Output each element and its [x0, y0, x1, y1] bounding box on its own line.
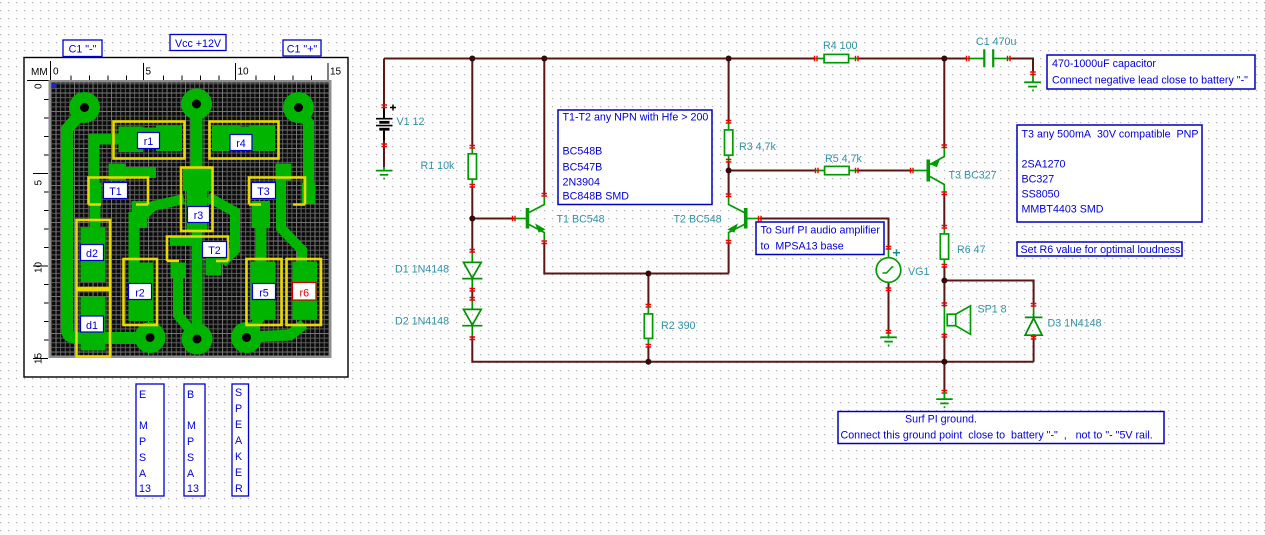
wire T2 emitter up	[728, 242, 730, 274]
capacitor C1	[966, 49, 1009, 67]
outline r2	[124, 259, 158, 325]
component pad T3 square	[276, 164, 292, 181]
label T1	[104, 183, 128, 199]
outline d1	[77, 290, 111, 357]
tick R3 top	[726, 121, 732, 124]
component pad d2	[81, 228, 106, 283]
ruler left ticks	[33, 100, 49, 359]
trace T1 square to right	[117, 167, 156, 178]
tick R3 bottom	[726, 160, 732, 163]
pad P6	[231, 322, 262, 353]
wire D2 to bottom rail	[472, 336, 648, 362]
trace r1 left pad to T1	[94, 139, 124, 188]
wire R3 node to R5	[729, 170, 816, 172]
tick R5 right	[856, 168, 859, 174]
svg-text:T1 BC548: T1 BC548	[557, 214, 605, 226]
node speaker bottom	[941, 359, 947, 365]
outline d2	[77, 220, 111, 288]
trace r3 bottom down through T2 to P5	[192, 226, 203, 334]
svg-text:10: 10	[34, 261, 45, 273]
svg-text:Surf PI ground.: Surf PI ground.	[905, 414, 977, 426]
component pad T1 bottom	[132, 201, 148, 228]
wire R1 branch top	[471, 59, 473, 148]
component pad d1	[81, 297, 106, 351]
node T1 base	[469, 216, 475, 222]
label r3	[188, 207, 210, 223]
svg-text:T1: T1	[109, 186, 122, 198]
component pad T2 left	[171, 263, 186, 278]
red pin ticks	[382, 56, 1037, 393]
diode D3	[1025, 305, 1043, 335]
label r6 (red)	[293, 283, 317, 301]
svg-text:S: S	[187, 452, 194, 464]
label r5	[253, 284, 276, 300]
note box Surf PI ground	[838, 412, 1164, 444]
component pad r4 right	[249, 126, 275, 152]
pad P4	[135, 322, 166, 353]
wire base node to T1	[472, 218, 514, 220]
outline r6	[287, 259, 322, 325]
tick ground bottom	[942, 391, 948, 394]
tick R5 left	[816, 168, 819, 174]
tick SP1 bottom	[942, 335, 948, 338]
tick V1 top	[382, 105, 388, 108]
svg-text:P: P	[235, 403, 242, 415]
label r4	[230, 135, 252, 151]
component pad T3 right	[302, 183, 315, 205]
label r2	[129, 284, 152, 300]
wire R3 bottom to node	[728, 161, 730, 171]
svg-text:T2: T2	[208, 245, 221, 257]
svg-text:A: A	[235, 435, 243, 447]
tick D1 bottom	[470, 289, 476, 292]
note box T3 PNP	[1017, 125, 1202, 222]
svg-text:R6 47: R6 47	[957, 244, 986, 256]
svg-text:MM: MM	[31, 67, 48, 78]
trace P3 tail down right side	[299, 110, 309, 200]
note SPEAKER	[232, 384, 249, 496]
svg-text:to MPSA13 base: to MPSA13 base	[761, 241, 844, 253]
pcb board black area with grid	[51, 83, 329, 356]
ruler corner lines	[27, 61, 51, 81]
tick R6 bottom	[942, 265, 948, 268]
tick R4 right	[856, 56, 859, 62]
trace T1 bottom pad diagonal to r3	[141, 199, 184, 218]
label T3	[252, 183, 276, 199]
tick R2 bottom	[646, 345, 652, 348]
wire top rail after C1 to corner	[1009, 59, 1033, 72]
wire battery to ground	[383, 131, 385, 167]
svg-text:A: A	[139, 468, 147, 480]
note C1 minus	[63, 40, 102, 57]
svg-text:R3 4,7k: R3 4,7k	[739, 141, 776, 153]
pad hole P5	[193, 335, 202, 344]
pad P3	[283, 92, 314, 123]
pad P2	[181, 89, 212, 120]
speaker SP1	[944, 306, 970, 335]
component pad r1 right	[156, 126, 182, 152]
svg-text:C1 470u: C1 470u	[976, 36, 1016, 48]
node R3 bottom	[726, 168, 732, 174]
svg-text:d2: d2	[86, 248, 98, 260]
svg-text:Connect negative lead close to: Connect negative lead close to battery "…	[1052, 75, 1248, 87]
component pad T2 square	[206, 256, 222, 276]
outline r4	[210, 122, 279, 159]
wire top rail right segment	[859, 58, 967, 60]
wire bottom rail mid	[648, 361, 944, 363]
note C1 plus	[283, 40, 321, 56]
svg-text:SS8050: SS8050	[1022, 189, 1060, 201]
svg-text:R1 10k: R1 10k	[421, 160, 456, 172]
wire T2 collector to R3 node	[728, 171, 730, 197]
resistor R6	[940, 234, 948, 259]
label d1	[81, 316, 104, 332]
outline r5	[247, 259, 282, 325]
trace P6 to r6 bottom	[251, 324, 304, 337]
wire R5 to T3 base	[857, 170, 912, 172]
tick R1 top	[470, 146, 476, 149]
svg-text:V1 12: V1 12	[397, 116, 425, 128]
svg-text:2N3904: 2N3904	[563, 177, 600, 189]
node R1 top	[469, 56, 475, 62]
svg-text:P: P	[187, 436, 194, 448]
outline T2	[167, 237, 228, 262]
svg-text:To Surf PI audio amplifier: To Surf PI audio amplifier	[761, 225, 881, 237]
tick SP1 top	[942, 303, 948, 306]
tick R1 bottom	[470, 185, 476, 188]
trace T1 left pad to d2	[90, 198, 101, 233]
ground (VG1)	[880, 333, 897, 345]
trace T2 left pad down to P5	[178, 272, 190, 330]
wire R3 branch top	[728, 59, 730, 123]
label T2	[203, 242, 227, 258]
outline r3	[181, 168, 213, 232]
wire node to D3 branch	[944, 281, 1033, 306]
trace T3 square down diagonal to r6 top	[281, 176, 302, 264]
svg-text:K: K	[235, 451, 243, 463]
wire T1 emitter down to rail	[544, 242, 648, 274]
svg-text:MMBT4403 SMD: MMBT4403 SMD	[1022, 204, 1104, 216]
tick C1 right	[1008, 56, 1011, 62]
pad hole P3	[294, 103, 303, 112]
pcb origin marker	[52, 83, 57, 88]
component pad r6	[293, 262, 318, 320]
svg-text:0: 0	[34, 83, 45, 89]
svg-text:S: S	[139, 452, 146, 464]
component pad r1 left	[119, 127, 144, 153]
tick D1 top	[470, 250, 476, 253]
wire R6 to node	[943, 266, 945, 281]
wire emitter rail to T2	[648, 273, 728, 275]
svg-text:BC547B: BC547B	[563, 162, 603, 174]
wire speaker to bottom rail	[943, 333, 945, 362]
tick T2 emitter	[726, 241, 732, 244]
wire T3 collector down to R6	[943, 193, 945, 227]
wire base node down to D1	[471, 219, 473, 253]
ruler left numbers (rotated)	[34, 83, 45, 364]
svg-text:13: 13	[139, 483, 151, 495]
svg-text:B: B	[187, 389, 194, 401]
svg-text:R5 4,7k: R5 4,7k	[825, 153, 862, 165]
resistor R3	[725, 130, 733, 155]
wire left rail to battery	[383, 59, 385, 108]
svg-text:2SA1270: 2SA1270	[1022, 159, 1066, 171]
note box 470-1000uF capacitor	[1047, 55, 1255, 89]
component value labels (teal)	[395, 36, 1102, 332]
tick T2 collector	[726, 194, 732, 197]
pcb panel frame	[24, 58, 348, 378]
pad P1	[69, 92, 100, 123]
svg-text:T3 BC327: T3 BC327	[949, 170, 997, 182]
svg-text:T2 BC548: T2 BC548	[674, 214, 722, 226]
component pad T1 left	[89, 183, 102, 205]
svg-text:r4: r4	[236, 138, 246, 150]
tick T3 emitter	[942, 145, 948, 148]
note B MPSA13	[184, 384, 205, 496]
component pad T3 bottom	[252, 201, 271, 228]
wire R1 bottom to base node	[471, 186, 473, 219]
wire top rail left segment	[384, 58, 814, 60]
tick VG1 top	[886, 247, 892, 250]
pad P5	[182, 324, 213, 355]
outline r1	[114, 122, 185, 159]
ground (bottom, Surf PI)	[936, 392, 953, 407]
ruler top numbers	[53, 67, 342, 78]
component pad r3 top	[183, 167, 211, 192]
pad bridge r1	[140, 128, 159, 147]
resistor R5	[825, 166, 850, 174]
tick T1 emitter	[542, 241, 548, 244]
ground (C1)	[1024, 71, 1041, 90]
tick C1 ground	[1030, 72, 1036, 75]
tick VG1 ground	[886, 331, 892, 334]
pad hole P2	[192, 100, 201, 109]
svg-text:r6: r6	[300, 288, 310, 300]
node R3 top	[726, 56, 732, 62]
wire T1 collector up	[543, 59, 545, 196]
trace T3 bottom pad down to r5	[256, 210, 267, 266]
tick V1 bottom	[382, 144, 388, 147]
svg-text:Connect this ground point clo: Connect this ground point close to batte…	[841, 430, 1153, 442]
svg-text:r1: r1	[144, 136, 154, 148]
wire VG1 to ground	[888, 283, 890, 333]
svg-text:10: 10	[238, 67, 250, 78]
svg-text:T3: T3	[257, 186, 270, 198]
ruler top ticks	[71, 63, 328, 81]
wire T3 emitter up	[943, 59, 945, 148]
svg-text:R: R	[235, 483, 243, 495]
diode D2	[462, 300, 482, 336]
svg-text:5: 5	[34, 180, 45, 186]
node R2 bottom	[645, 359, 651, 365]
svg-text:SP1 8: SP1 8	[978, 304, 1007, 316]
pcb board gray frame	[49, 80, 332, 358]
svg-text:r3: r3	[194, 210, 204, 222]
tick D2 top	[470, 298, 476, 301]
resistor R1	[468, 154, 476, 179]
pad hole P6	[242, 333, 251, 342]
svg-text:T3 any 500mA 30V compatible: T3 any 500mA 30V compatible PNP	[1022, 129, 1199, 141]
svg-text:C1 "+": C1 "+"	[287, 44, 318, 56]
svg-text:13: 13	[187, 483, 199, 495]
tick R4 left	[815, 56, 818, 62]
generator VG1	[876, 249, 901, 283]
outline T3	[249, 178, 305, 205]
diode D1	[462, 252, 482, 288]
wire bottom rail to ground	[943, 362, 945, 392]
outline T1	[89, 178, 149, 205]
svg-text:D3 1N4148: D3 1N4148	[1048, 318, 1102, 330]
node T1 collector top	[541, 56, 547, 62]
node R6 bottom	[941, 278, 947, 284]
svg-text:E: E	[235, 419, 242, 431]
svg-text:d1: d1	[86, 320, 98, 332]
tick T1 collector	[542, 194, 548, 197]
svg-text:r2: r2	[135, 288, 145, 300]
resistor R2	[644, 314, 652, 339]
trace T1 bottom pad down to r2	[129, 212, 140, 268]
svg-text:T1-T2 any NPN with Hfe > 200: T1-T2 any NPN with Hfe > 200	[563, 112, 709, 124]
note box Set R6	[1017, 242, 1182, 256]
component pad r3 bottom	[187, 191, 208, 230]
svg-text:M: M	[139, 420, 148, 432]
tick R6 top	[942, 226, 948, 229]
pad hole P1	[80, 103, 89, 112]
wire R2 top	[647, 274, 649, 307]
wire node down to speaker	[943, 281, 945, 308]
node R2 top	[645, 271, 651, 277]
svg-text:BC327: BC327	[1022, 174, 1055, 186]
wire D3 to bottom rail	[1033, 334, 1035, 362]
trace r5 bottom to P6	[252, 313, 263, 330]
pad hole P4	[146, 333, 155, 342]
wire R2 bottom	[647, 346, 649, 362]
svg-text:C1 "-": C1 "-"	[69, 44, 97, 56]
transistor T1	[514, 195, 545, 242]
note box T1-T2 NPN	[558, 110, 712, 205]
component pad T1 square	[109, 164, 127, 181]
svg-text:BC848B SMD: BC848B SMD	[563, 191, 630, 203]
svg-text:R4 100: R4 100	[823, 40, 858, 52]
pad bridge r4	[237, 127, 251, 144]
trace P2 tail down to r3	[191, 108, 203, 172]
ground (battery)	[376, 167, 393, 179]
tick R2 top	[646, 305, 652, 308]
tick D2 bottom	[470, 337, 476, 340]
svg-text:r5: r5	[259, 288, 269, 300]
battery V1	[376, 105, 396, 141]
svg-text:5: 5	[146, 67, 152, 78]
svg-text:M: M	[187, 420, 196, 432]
tick T3 base	[911, 168, 914, 174]
svg-text:R2 390: R2 390	[661, 320, 696, 332]
component pad r5	[251, 262, 276, 320]
tick D3 bottom	[1031, 337, 1037, 340]
svg-text:D2 1N4148: D2 1N4148	[395, 316, 449, 328]
svg-text:P: P	[139, 436, 146, 448]
wire D1 to D2	[471, 288, 473, 300]
wire bottom rail right	[944, 361, 1033, 363]
svg-text:VG1: VG1	[908, 266, 929, 278]
svg-text:15: 15	[330, 67, 342, 78]
note E MPSA13	[136, 384, 164, 496]
svg-text:0: 0	[53, 67, 59, 78]
trace T2 horizontal	[170, 237, 194, 246]
transistor T3 (PNP)	[912, 147, 944, 193]
resistor R4	[824, 54, 849, 62]
svg-text:E: E	[139, 389, 146, 401]
svg-text:D1 1N4148: D1 1N4148	[395, 264, 449, 276]
tick D3 top	[1031, 304, 1037, 307]
svg-text:BC548B: BC548B	[563, 146, 603, 158]
svg-text:Set R6 value for optimal loudn: Set R6 value for optimal loudness	[1021, 244, 1181, 256]
tick T2 base	[759, 216, 762, 222]
svg-text:E: E	[235, 467, 242, 479]
transistor T2 (mirrored)	[729, 196, 761, 242]
trace r3 diagonal right down	[208, 197, 235, 263]
label d2	[81, 245, 104, 261]
label r1	[138, 133, 160, 149]
tick VG1 bottom	[886, 288, 892, 291]
wire T2 base to VG1	[760, 219, 889, 250]
note Vcc +12V	[170, 35, 226, 51]
component pad r2	[129, 263, 154, 322]
component pad r4 left	[212, 126, 240, 152]
svg-text:A: A	[187, 468, 195, 480]
tick T1 base	[513, 216, 516, 222]
node T3 emitter top	[941, 56, 947, 62]
tick C1 left	[967, 56, 970, 62]
junction dots	[469, 56, 947, 365]
trace P1 to bottom left rail	[67, 110, 140, 338]
svg-text:Vcc +12V: Vcc +12V	[175, 38, 222, 50]
tick T3 collector	[942, 192, 948, 195]
note box To Surf PI audio amplifier	[756, 222, 884, 255]
svg-text:470-1000uF capacitor: 470-1000uF capacitor	[1052, 58, 1156, 70]
svg-text:S: S	[235, 387, 242, 399]
